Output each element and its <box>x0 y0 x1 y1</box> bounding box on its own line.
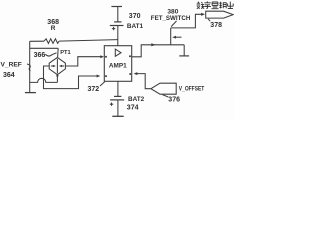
wire PT1 bottom to V_REF line with hop <box>30 78 58 82</box>
arrowhead into AMP1 upper-left pin <box>100 55 104 58</box>
wire FET drain to 378 callout <box>171 14 202 28</box>
resistor R left lead <box>30 40 44 42</box>
ground terminal bar bottom-left <box>25 92 36 94</box>
battery BAT2 short plate <box>114 95 121 97</box>
lead line from 372 to AMP1 corner <box>100 82 105 86</box>
svg-text:R: R <box>51 25 56 32</box>
svg-text:V_REF: V_REF <box>1 62 22 69</box>
arrowhead on AMP1 lower-left wire <box>97 75 101 78</box>
wire PT1 top terminal <box>57 48 60 57</box>
connector symbol V_OFFSET <box>151 83 176 94</box>
BAT2 plus sign <box>110 103 113 106</box>
op-amp block AMP1 <box>104 46 131 82</box>
op-amp triangle symbol <box>115 49 121 56</box>
svg-text:AMP1: AMP1 <box>109 62 127 69</box>
pin mark upper-left <box>105 56 107 58</box>
transducer PT1 body <box>49 57 65 74</box>
connector symbol 378 (digital output) <box>206 11 234 18</box>
battery BAT2 long plate <box>110 99 124 101</box>
lead line squiggle from 364 to V_REF wire <box>27 64 30 71</box>
pin mark lower-left <box>105 75 107 77</box>
resistor R zigzag <box>44 39 59 44</box>
pin mark upper-right <box>129 55 131 57</box>
transistor FET channel <box>170 28 172 45</box>
wire PT1 bottom terminal <box>56 75 58 83</box>
arrowhead into AMP1 lower-right pin <box>134 72 138 75</box>
svg-text:374: 374 <box>127 105 139 112</box>
wire V_REF vertical <box>29 41 31 92</box>
wire AMP1 bottom to BAT2 <box>117 81 119 96</box>
lead line from 366 to PT1 <box>45 53 56 56</box>
lead tick from callout to 378 <box>208 19 210 21</box>
BAT1 plus sign <box>112 27 115 30</box>
arrowhead into 378 callout <box>201 13 205 16</box>
svg-text:372: 372 <box>88 86 100 93</box>
lead tick from callout to 376 <box>162 95 168 97</box>
battery BAT1 terminal bar top <box>111 6 122 8</box>
terminal bar right <box>179 55 189 57</box>
wire BAT1 to AMP1 top <box>117 26 119 46</box>
svg-text:PT1: PT1 <box>60 50 70 56</box>
wire top terminal to BAT1 <box>117 7 119 22</box>
battery BAT1 short plate <box>114 21 121 23</box>
battery BAT2 terminal bar bottom <box>112 115 123 117</box>
svg-text:378: 378 <box>210 22 222 29</box>
wire AMP1 offset input from callout <box>137 74 151 89</box>
svg-text:364: 364 <box>3 72 15 79</box>
svg-text:BAT2: BAT2 <box>128 96 145 103</box>
svg-text:376: 376 <box>168 97 180 104</box>
chinese caption digital output <box>197 1 234 8</box>
wire AMP1 output up and right <box>132 45 185 57</box>
pin mark lower-right <box>129 73 131 75</box>
wire resistor to BAT1 node <box>59 40 118 42</box>
svg-text:BAT1: BAT1 <box>127 23 144 30</box>
svg-text:V_OFFSET: V_OFFSET <box>179 86 205 93</box>
wire V_REF branch to PT1 top <box>30 47 59 49</box>
PT1 left arrow <box>51 65 53 67</box>
arrowhead on output wire <box>151 43 155 46</box>
PT1 diaphragm center line <box>56 59 58 74</box>
svg-text:366: 366 <box>34 52 46 59</box>
svg-text:FET_SWITCH: FET_SWITCH <box>151 15 191 22</box>
battery BAT1 long plate <box>110 25 124 27</box>
svg-text:370: 370 <box>129 13 141 20</box>
FET gate arrow <box>176 36 182 38</box>
wire PT1 left down and around to AMP1 minus input <box>44 66 97 89</box>
wire PT1 right to AMP1 plus input <box>65 57 101 66</box>
lead line from FET_SWITCH to FET <box>171 21 176 27</box>
wire output down to terminal <box>183 45 185 56</box>
PT1 right arrow <box>62 65 64 67</box>
junction dot PT1 bottom <box>56 75 58 77</box>
wire BAT2 to bottom terminal <box>117 100 119 116</box>
